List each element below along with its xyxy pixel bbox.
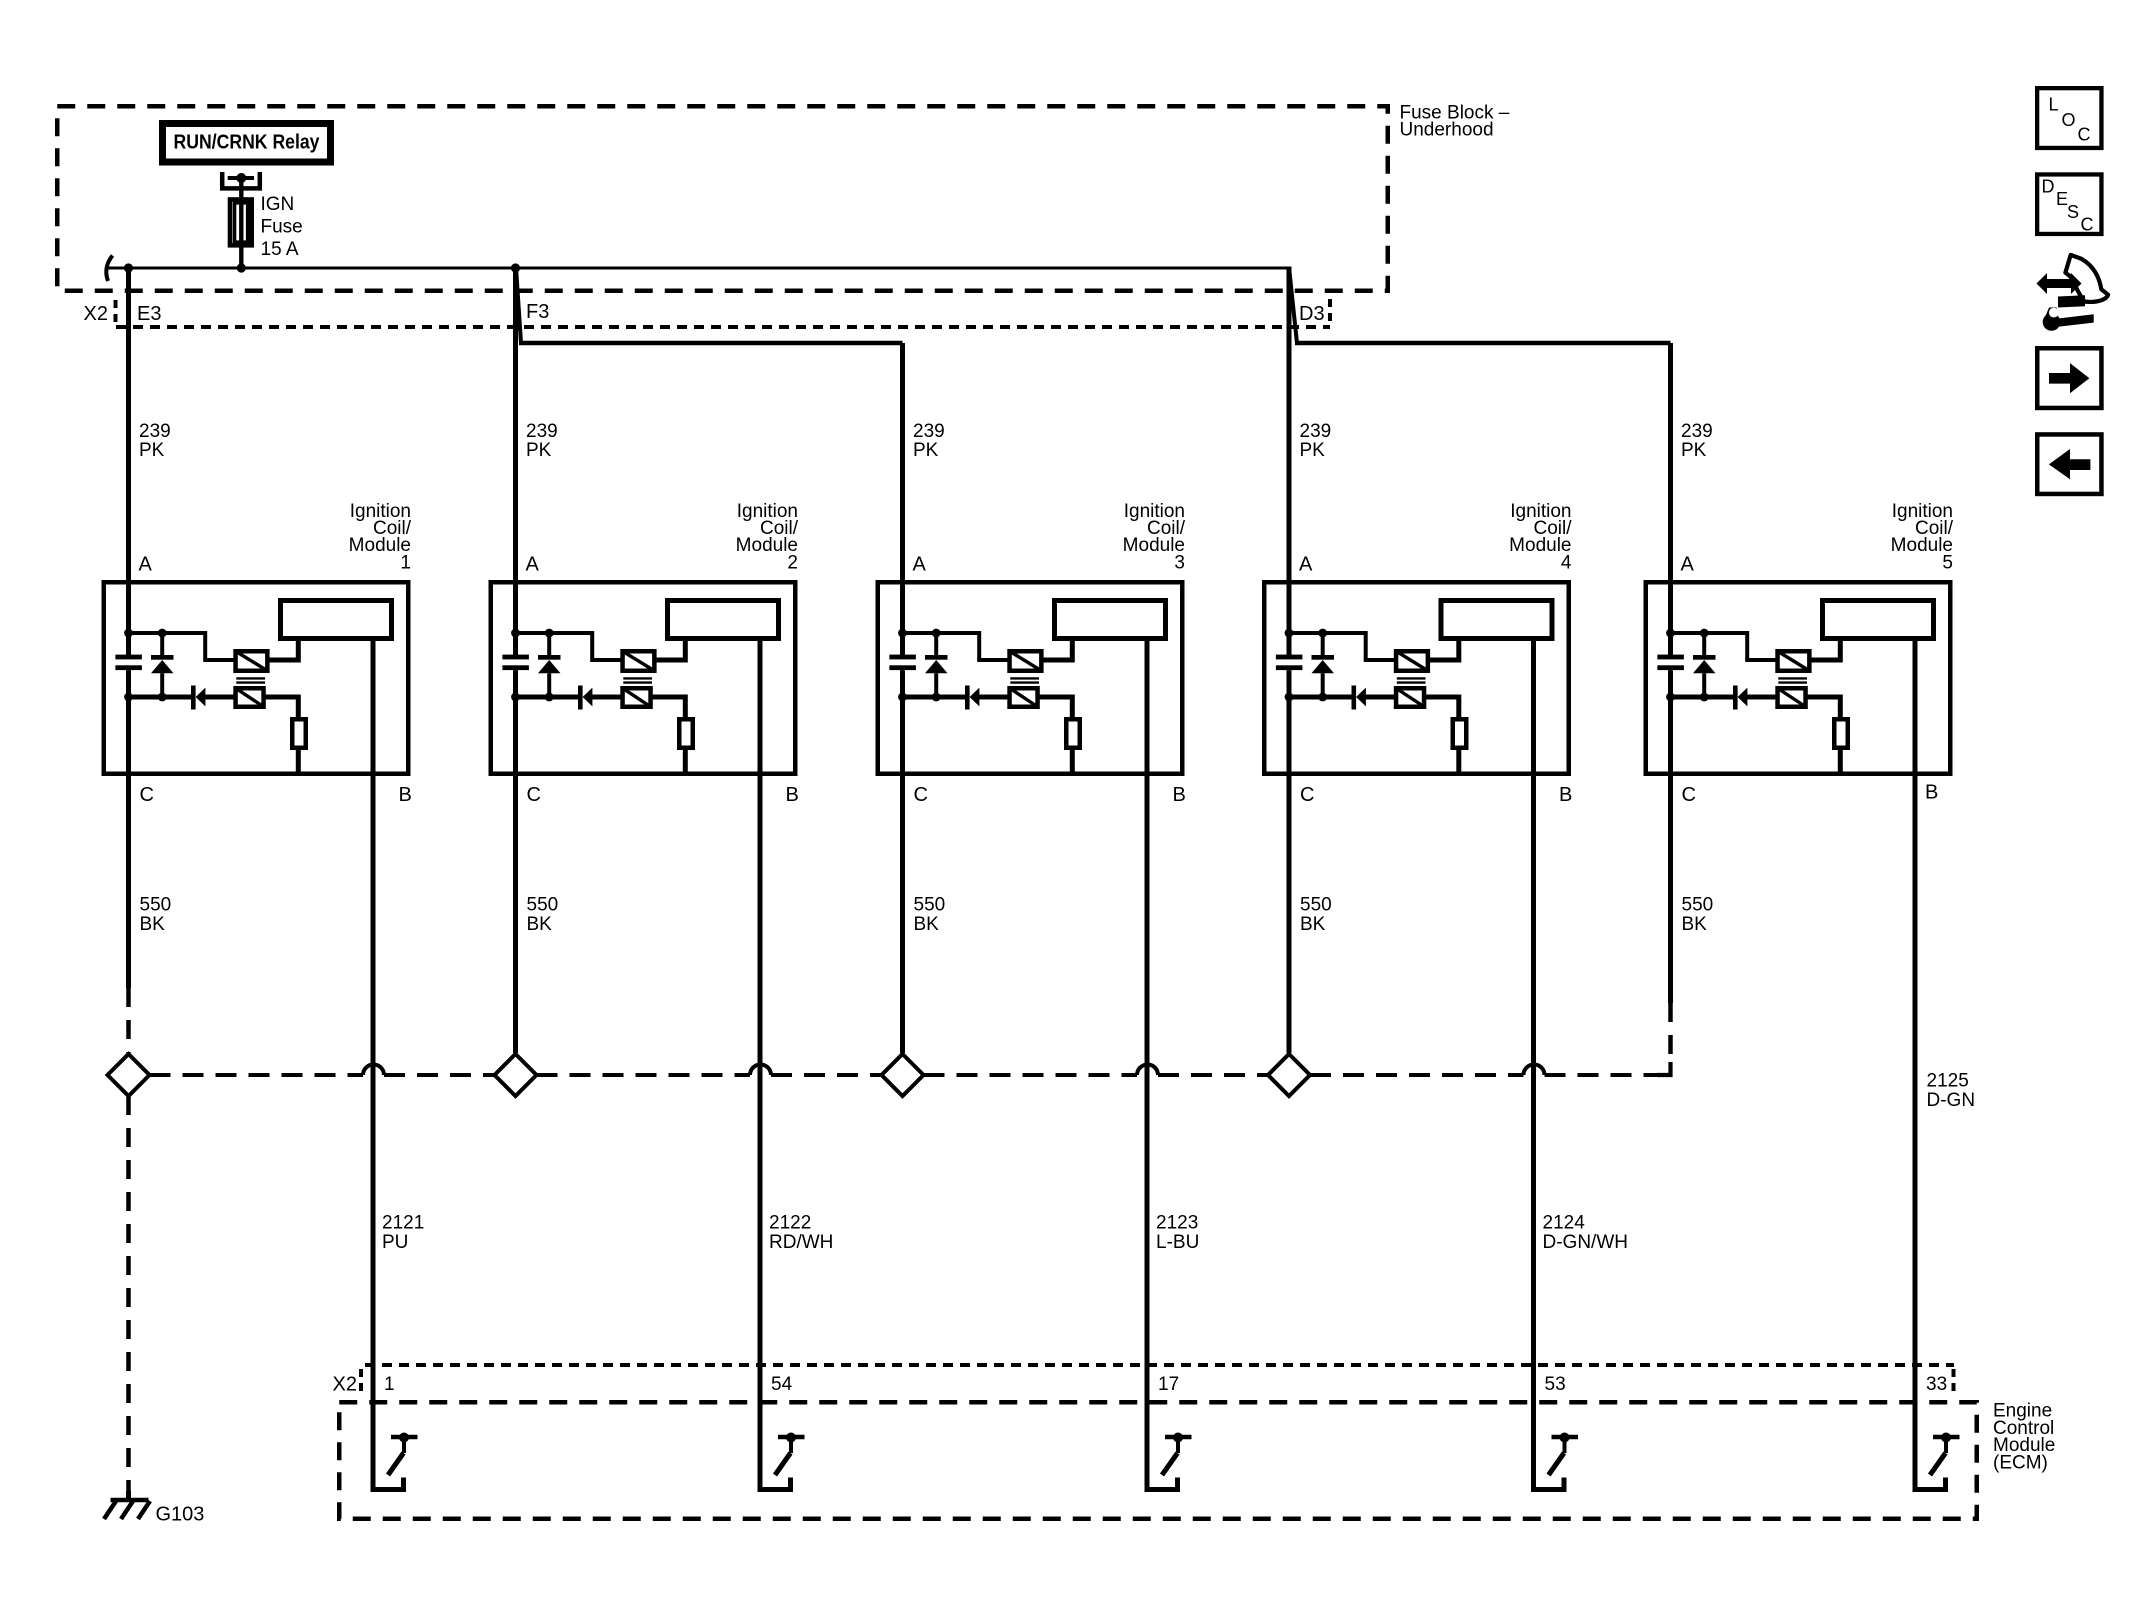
relay K: RUN/CRNK Relay box — [163, 124, 331, 163]
fuse block label — [1400, 102, 1510, 140]
internal node line top (module 1) — [129, 633, 235, 660]
svg-text:550: 550 — [140, 895, 172, 916]
junction dot bottom-zener (module 2) — [545, 693, 554, 702]
wire pin C internal (module 5) — [1668, 670, 1673, 778]
svg-text:BK: BK — [527, 914, 553, 935]
wire D3 slant branch — [1290, 272, 1298, 343]
transformer secondary coil (module 5) — [1778, 651, 1810, 671]
wire hop-over at ECM wire 2 — [750, 1065, 771, 1076]
junction dot F3 — [511, 263, 520, 272]
svg-text:A: A — [526, 554, 540, 576]
svg-text:4: 4 — [1561, 552, 1572, 573]
junction dot top-left (module 1) — [124, 629, 133, 638]
svg-text:X2: X2 — [84, 303, 108, 325]
svg-text:2124: 2124 — [1543, 1213, 1586, 1234]
svg-text:C: C — [527, 784, 541, 806]
svg-text:PK: PK — [1300, 440, 1326, 461]
wire module 1 pin C solid — [126, 776, 131, 988]
svg-text:550: 550 — [527, 895, 559, 916]
internal node line top (module 2) — [516, 633, 622, 660]
svg-text:PK: PK — [139, 440, 165, 461]
junction dot top-zener (module 2) — [545, 629, 554, 638]
junction dot relay output — [236, 173, 246, 183]
ignition coil/module 2 label — [736, 501, 799, 574]
wire D3 branch horizontal to module 5 — [1295, 341, 1671, 345]
ignition coil/module 3 label — [1123, 501, 1186, 574]
connector block (module 5) — [1823, 601, 1934, 639]
transformer secondary coil (module 3) — [1010, 651, 1042, 671]
resistor (module 2) — [679, 719, 693, 748]
svg-text:53: 53 — [1545, 1374, 1566, 1395]
icon forward arrow box — [2037, 348, 2101, 408]
svg-text:1: 1 — [384, 1374, 395, 1395]
bus wire from relay/fuse — [107, 267, 1289, 270]
X2 separator tick right of D3 — [1328, 299, 1332, 327]
wire label 239 PK (module 1) — [139, 421, 171, 461]
wire label 550 BK (module 3) — [914, 895, 946, 935]
wire pin A internal (module 3) — [900, 580, 905, 655]
wire pin B to ECM pin (module 1) — [371, 640, 376, 1490]
transformer secondary coil (module 2) — [623, 651, 655, 671]
wire resistor to case (module 5) — [1838, 750, 1843, 776]
wire pin B to ECM pin (module 5) — [1913, 640, 1918, 1490]
splice diamond 1 — [108, 1054, 150, 1096]
resistor (module 4) — [1453, 719, 1467, 748]
diode (module 5) — [1733, 686, 1747, 710]
wire primary coil to resistor (module 5) — [1807, 697, 1841, 719]
wire secondary coil to connector block (module 4) — [1429, 640, 1459, 660]
svg-text:239: 239 — [1300, 421, 1332, 442]
svg-text:F3: F3 — [526, 301, 549, 323]
wire label 239 PK (module 5) — [1681, 421, 1713, 461]
ECM internal ground at pin 53 — [1549, 1433, 1579, 1476]
wire resistor to case (module 2) — [683, 750, 688, 776]
bus end curl — [106, 256, 112, 282]
wire label 550 BK (module 5) — [1682, 895, 1714, 935]
svg-text:A: A — [1681, 554, 1695, 576]
wire pin B to ECM pin (module 2) — [758, 640, 763, 1490]
ignition coil/module 5 label — [1891, 501, 1954, 574]
svg-text:BK: BK — [1682, 914, 1708, 935]
junction dot bottom-zener (module 3) — [932, 693, 941, 702]
svg-text:S: S — [2067, 202, 2079, 222]
junction dot top-left (module 3) — [898, 629, 907, 638]
svg-text:PK: PK — [913, 440, 939, 461]
splice diamond 4 — [1268, 1054, 1310, 1096]
wire hop-over at ECM wire 3 — [1137, 1065, 1158, 1076]
wire primary coil to resistor (module 2) — [652, 697, 686, 719]
internal node line top (module 4) — [1289, 633, 1395, 660]
wire module 3 pin C — [900, 776, 905, 1053]
junction dot fuse-bus — [237, 263, 246, 272]
icon wiring-repair (arrows and wrench) — [2037, 255, 2109, 331]
ignition coil/module 3 box — [878, 582, 1183, 774]
junction dot bottom-left (module 5) — [1666, 693, 1675, 702]
svg-text:239: 239 — [1681, 421, 1713, 442]
capacitor (module 4) — [1276, 655, 1303, 671]
transformer primary coil (module 3) — [1010, 688, 1038, 707]
ECM pin 17 foot — [1145, 1478, 1178, 1490]
internal node line top (module 3) — [903, 633, 1009, 660]
diode (module 1) — [191, 686, 205, 710]
transformer secondary coil (module 4) — [1396, 651, 1428, 671]
resistor (module 1) — [292, 719, 306, 748]
wire pin C internal (module 3) — [900, 670, 905, 778]
wire D3 to module 4 pin A — [1287, 267, 1292, 583]
wire pin A internal (module 1) — [126, 580, 131, 655]
wire hop-over at ECM wire 4 — [1524, 1065, 1545, 1076]
transformer core (module 2) — [623, 678, 652, 682]
ignition coil/module 4 label — [1509, 501, 1572, 574]
connector block (module 1) — [281, 601, 392, 639]
svg-text:550: 550 — [1300, 895, 1332, 916]
svg-text:550: 550 — [914, 895, 946, 916]
svg-text:C: C — [1682, 784, 1696, 806]
wire primary coil to resistor (module 1) — [265, 697, 299, 719]
svg-text:15 A: 15 A — [261, 239, 299, 260]
wire diode to primary coil (module 5) — [1747, 695, 1777, 700]
wire label 239 PK (module 3) — [913, 421, 945, 461]
internal node line bottom (module 1) — [129, 695, 194, 700]
wire down to module 3 pin A — [900, 343, 905, 582]
wire diode to primary coil (module 4) — [1365, 695, 1395, 700]
relay terminal cup symbol — [222, 172, 260, 188]
ignition coil/module 2 box — [491, 582, 796, 774]
transformer primary coil (module 5) — [1778, 688, 1806, 707]
svg-text:C: C — [2081, 215, 2094, 235]
svg-text:A: A — [139, 554, 153, 576]
wire label 239 PK (module 2) — [526, 421, 558, 461]
diode (module 2) — [578, 686, 592, 710]
internal node line bottom (module 4) — [1289, 695, 1354, 700]
svg-text:BK: BK — [140, 914, 166, 935]
ECM internal ground at pin 17 — [1162, 1433, 1192, 1476]
connector block (module 4) — [1441, 601, 1552, 639]
svg-text:B: B — [399, 784, 412, 806]
svg-text:1: 1 — [400, 552, 411, 573]
wire E3 to module 1 pin A — [126, 268, 131, 582]
svg-text:BK: BK — [914, 914, 940, 935]
svg-text:G103: G103 — [156, 1504, 205, 1526]
ECM pin 1 foot — [371, 1478, 404, 1490]
junction dot top-zener (module 3) — [932, 629, 941, 638]
svg-text:D3: D3 — [1299, 303, 1325, 325]
wire label 2123 L-BU — [1156, 1213, 1199, 1253]
connector line X2 top dotted — [116, 325, 1330, 329]
transformer primary coil (module 4) — [1396, 688, 1424, 707]
svg-text:54: 54 — [771, 1374, 793, 1395]
svg-text:5: 5 — [1942, 552, 1953, 573]
wire diode to primary coil (module 2) — [592, 695, 622, 700]
svg-text:D: D — [2042, 177, 2055, 197]
junction dot bottom-left (module 2) — [511, 693, 520, 702]
ground bus dashed line — [150, 1073, 1660, 1077]
engine control module (ECM) dashed box — [339, 1402, 1977, 1519]
wire label 550 BK (module 2) — [527, 895, 559, 935]
svg-text:B: B — [1925, 782, 1938, 804]
ECM internal ground at pin 54 — [775, 1433, 805, 1476]
wire module 5 pin C solid — [1668, 776, 1673, 1003]
svg-text:B: B — [786, 784, 799, 806]
wire hop-over at ECM wire 1 — [363, 1065, 384, 1076]
svg-text:A: A — [913, 554, 927, 576]
wire module 2 pin C — [513, 776, 518, 1053]
svg-text:2: 2 — [787, 552, 798, 573]
wire label 239 PK (module 4) — [1300, 421, 1332, 461]
wire secondary coil to connector block (module 3) — [1043, 640, 1073, 660]
connector block (module 2) — [668, 601, 779, 639]
zener diode (module 5) — [1693, 633, 1716, 697]
zener diode (module 3) — [925, 633, 948, 697]
junction dot bottom-zener (module 1) — [158, 693, 167, 702]
junction dot bottom-zener (module 4) — [1318, 693, 1327, 702]
transformer core (module 5) — [1778, 678, 1807, 682]
connector block (module 3) — [1055, 601, 1166, 639]
svg-text:D-GN/WH: D-GN/WH — [1543, 1232, 1628, 1253]
wire pin C internal (module 2) — [513, 670, 518, 778]
ECM pin 54 foot — [758, 1478, 791, 1490]
ignition coil/module 1 label — [349, 501, 412, 574]
ignition coil/module 4 box — [1264, 582, 1569, 774]
ECM label — [1993, 1401, 2055, 1474]
junction dot top-left (module 4) — [1285, 629, 1294, 638]
svg-text:L: L — [2049, 95, 2059, 115]
wire pin B to ECM pin (module 3) — [1145, 640, 1150, 1490]
transformer core (module 3) — [1010, 678, 1039, 682]
wire diode to primary coil (module 1) — [205, 695, 235, 700]
svg-text:L-BU: L-BU — [1156, 1232, 1199, 1253]
svg-text:239: 239 — [913, 421, 945, 442]
junction dot E3 — [124, 263, 133, 272]
wire F3 slant branch — [516, 270, 521, 343]
splice diamond 2 — [495, 1054, 537, 1096]
junction dot top-left (module 5) — [1666, 629, 1675, 638]
X2 bottom separator tick — [359, 1369, 363, 1393]
capacitor (module 5) — [1657, 655, 1684, 671]
svg-text:PK: PK — [526, 440, 552, 461]
wire resistor to case (module 4) — [1456, 750, 1461, 776]
wire module 1 pin C dashed to splice — [126, 988, 131, 1053]
wire resistor to case (module 3) — [1070, 750, 1075, 776]
svg-text:C: C — [1300, 784, 1314, 806]
wire F3 to module 2 pin A — [513, 268, 518, 582]
transformer secondary coil (module 1) — [236, 651, 268, 671]
wire pin B to ECM pin (module 4) — [1531, 640, 1536, 1490]
internal node line bottom (module 2) — [516, 695, 581, 700]
svg-text:PK: PK — [1681, 440, 1707, 461]
svg-text:X2: X2 — [333, 1374, 357, 1396]
svg-text:C: C — [2078, 125, 2091, 145]
wire label 2125 D-GN — [1927, 1071, 1976, 1111]
wire F3 branch horizontal to module 3 — [519, 341, 903, 345]
wire label 550 BK (module 1) — [140, 895, 172, 935]
svg-text:E3: E3 — [137, 303, 161, 325]
diode (module 3) — [965, 686, 979, 710]
wire pin A internal (module 5) — [1668, 580, 1673, 655]
capacitor (module 2) — [502, 655, 529, 671]
wire secondary coil to connector block (module 2) — [656, 640, 686, 660]
svg-text:2121: 2121 — [382, 1213, 424, 1234]
svg-text:3: 3 — [1174, 552, 1185, 573]
ECM pin 33 foot — [1913, 1478, 1946, 1490]
junction dot top-zener (module 1) — [158, 629, 167, 638]
ground G103 symbol — [104, 1491, 150, 1519]
svg-text:550: 550 — [1682, 895, 1714, 916]
wire relay to fuse — [239, 178, 243, 199]
svg-text:Underhood: Underhood — [1400, 120, 1494, 141]
transformer primary coil (module 1) — [236, 688, 264, 707]
capacitor (module 1) — [115, 655, 141, 671]
ECM internal ground at pin 1 — [388, 1433, 418, 1476]
svg-text:2122: 2122 — [769, 1213, 811, 1234]
relay contact bar — [228, 176, 254, 180]
svg-text:BK: BK — [1300, 914, 1326, 935]
wire pin A internal (module 2) — [513, 580, 518, 655]
svg-text:C: C — [140, 784, 154, 806]
fuse F: IGN Fuse 15 A — [230, 199, 252, 268]
wire pin A internal (module 4) — [1287, 580, 1292, 655]
svg-text:239: 239 — [139, 421, 171, 442]
diode (module 4) — [1352, 686, 1366, 710]
svg-text:B: B — [1559, 784, 1572, 806]
svg-text:Fuse: Fuse — [261, 217, 303, 238]
zener diode (module 1) — [151, 633, 174, 697]
junction dot bottom-left (module 4) — [1285, 693, 1294, 702]
svg-text:B: B — [1173, 784, 1186, 806]
ignition coil/module 5 box — [1646, 582, 1951, 774]
svg-text:RD/WH: RD/WH — [769, 1232, 833, 1253]
svg-text:(ECM): (ECM) — [1993, 1452, 2048, 1473]
ignition coil/module 1 box — [104, 582, 409, 774]
junction dot top-left (module 2) — [511, 629, 520, 638]
svg-text:33: 33 — [1926, 1374, 1947, 1395]
wire module 4 pin C — [1287, 776, 1292, 1053]
icon back arrow box — [2037, 434, 2101, 494]
resistor (module 5) — [1834, 719, 1848, 748]
ground wire to G103 dashed — [126, 1096, 131, 1491]
transformer primary coil (module 2) — [623, 688, 651, 707]
wire diode to primary coil (module 3) — [979, 695, 1009, 700]
wire secondary coil to connector block (module 1) — [269, 640, 299, 660]
ECM pin 53 foot — [1531, 1478, 1564, 1490]
wire label 550 BK (module 4) — [1300, 895, 1332, 935]
zener diode (module 4) — [1312, 633, 1335, 697]
wire pin C internal (module 4) — [1287, 670, 1292, 778]
capacitor (module 3) — [889, 655, 916, 671]
icon LOC box — [2037, 88, 2101, 148]
wire pin C internal (module 1) — [126, 670, 131, 778]
junction dot top-zener (module 5) — [1700, 629, 1709, 638]
fuse block underhood dashed box — [57, 106, 1388, 291]
junction dot bottom-left (module 3) — [898, 693, 907, 702]
zener diode (module 2) — [538, 633, 561, 697]
splice diamond 3 — [882, 1054, 924, 1096]
wire resistor to case (module 1) — [296, 750, 301, 776]
wire down to module 5 pin A — [1668, 343, 1673, 582]
junction dot bottom-zener (module 5) — [1700, 693, 1709, 702]
junction dot top-zener (module 4) — [1318, 629, 1327, 638]
svg-text:17: 17 — [1158, 1374, 1179, 1395]
svg-text:PU: PU — [382, 1232, 408, 1253]
junction dot bottom-left (module 1) — [124, 693, 133, 702]
svg-text:D-GN: D-GN — [1927, 1090, 1976, 1111]
wire secondary coil to connector block (module 5) — [1811, 640, 1841, 660]
wire label 2124 D-GN/WH — [1543, 1213, 1628, 1253]
svg-text:2125: 2125 — [1927, 1071, 1969, 1092]
resistor (module 3) — [1066, 719, 1080, 748]
connector line X2 bottom dotted — [365, 1363, 1954, 1367]
internal node line bottom (module 3) — [903, 695, 968, 700]
svg-text:A: A — [1299, 554, 1313, 576]
wire label 2121 PU — [382, 1213, 424, 1253]
fuse label IGN Fuse 15 A — [261, 194, 303, 260]
svg-text:C: C — [914, 784, 928, 806]
transformer core (module 1) — [236, 678, 265, 682]
icon DESC box — [2037, 174, 2101, 234]
ECM internal ground at pin 33 — [1930, 1433, 1960, 1476]
X2 bottom right end tick — [1952, 1369, 1956, 1393]
svg-text:2123: 2123 — [1156, 1213, 1198, 1234]
wire module 5 pin C dashed — [1668, 1003, 1673, 1060]
svg-text:239: 239 — [526, 421, 558, 442]
wire label 2122 RD/WH — [769, 1213, 833, 1253]
X2 separator tick left — [114, 300, 118, 327]
internal node line bottom (module 5) — [1671, 695, 1736, 700]
svg-text:IGN: IGN — [261, 194, 295, 215]
transformer core (module 4) — [1397, 678, 1426, 682]
svg-text:O: O — [2062, 110, 2076, 130]
internal node line top (module 5) — [1671, 633, 1777, 660]
wire primary coil to resistor (module 4) — [1425, 697, 1459, 719]
svg-text:RUN/CRNK Relay: RUN/CRNK Relay — [174, 131, 321, 153]
wire primary coil to resistor (module 3) — [1039, 697, 1073, 719]
